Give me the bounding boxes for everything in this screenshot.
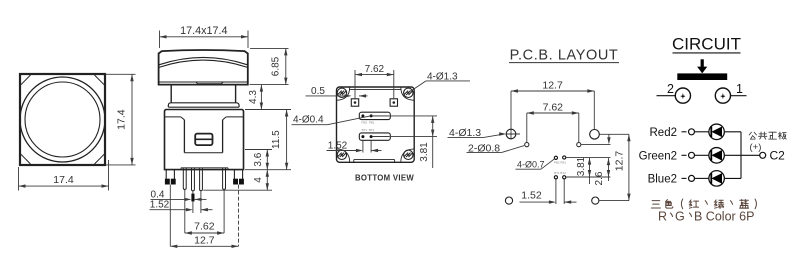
dimension 12.7 (pcb top) xyxy=(511,79,594,139)
LED D1 (red) xyxy=(709,124,725,140)
dimension 17.4 (front width) xyxy=(19,160,109,191)
bottom view: bottom notch xyxy=(354,160,395,163)
title P.C.B. LAYOUT xyxy=(509,48,619,64)
front view: button inner circle xyxy=(25,82,100,157)
side view: pin 4 xyxy=(223,168,226,190)
note R G B Color 6P xyxy=(658,209,754,223)
pcb hole &#216;0.8 left xyxy=(525,143,529,147)
svg-text:17.4: 17.4 xyxy=(116,109,128,130)
svg-text:4-Ø0.4: 4-Ø0.4 xyxy=(293,115,324,126)
dimension 7.62 xyxy=(185,232,224,234)
LED D2 (green) xyxy=(709,148,725,164)
front view: corner chamfer lines xyxy=(21,75,104,164)
svg-text:BT1 BT2: BT1 BT2 xyxy=(362,128,375,132)
side view: cap bottom tab xyxy=(196,82,223,84)
side view: button cap outline xyxy=(159,50,248,85)
pcb hole top-right &#216;1.3 xyxy=(590,130,629,140)
svg-text:3.81: 3.81 xyxy=(576,156,587,176)
bottom view: corner screw boss top-right xyxy=(404,88,413,97)
side view: cap dome arc inner xyxy=(159,60,248,67)
pcb hole &#216;0.8 right xyxy=(577,143,611,147)
svg-text:2.6: 2.6 xyxy=(594,171,605,185)
svg-text:4: 4 xyxy=(253,177,264,183)
svg-text:C2: C2 xyxy=(770,148,786,162)
wire Red2 to LED xyxy=(695,131,709,133)
bottom view: left peg hole square xyxy=(351,99,358,106)
title CIRCUIT xyxy=(672,35,741,54)
svg-text:3.81: 3.81 xyxy=(419,142,430,162)
svg-text:17.4x17.4: 17.4x17.4 xyxy=(180,25,227,37)
svg-text:6.85: 6.85 xyxy=(270,56,281,76)
dimension 0.5 (bottom view) xyxy=(306,86,368,98)
label 4-&#216;1.3 (pcb) xyxy=(448,127,507,139)
svg-text:R: R xyxy=(658,209,667,223)
svg-text:PB2 PB1: PB2 PB1 xyxy=(361,120,374,124)
pcb hole bottom-left &#216;1.3 xyxy=(505,197,512,204)
side view: pin 3 xyxy=(200,168,203,191)
bottom view: corner fillet arcs xyxy=(337,87,415,162)
front view: button outer circle xyxy=(20,77,105,162)
extension line: pin3 center xyxy=(200,191,202,213)
svg-text:BOTTOM VIEW: BOTTOM VIEW xyxy=(355,173,414,182)
label 4-&#216;0.4 (slot pins) xyxy=(292,115,372,126)
label 2-&#216;0.8 (pcb) xyxy=(467,142,525,154)
svg-text:12.7: 12.7 xyxy=(542,79,563,91)
side view: body outline xyxy=(165,110,244,170)
svg-text:4.3: 4.3 xyxy=(248,90,259,104)
side view: neck right edge xyxy=(235,85,237,103)
bottom view: inner top edge line xyxy=(350,89,402,91)
svg-text:G: G xyxy=(675,209,685,223)
side view: right mounting peg with crimp xyxy=(233,170,244,185)
side view: body bottom step xyxy=(181,168,228,170)
common anode bus wire xyxy=(740,132,742,179)
side view: pin 1 xyxy=(183,168,186,190)
side view: cap bottom rim line xyxy=(159,81,248,83)
bottom view: right peg hole square xyxy=(390,99,397,106)
side view: center latch xyxy=(195,134,212,146)
switch contact terminal 1 xyxy=(715,82,746,103)
chinese note: three colors (red green blue) xyxy=(651,199,756,209)
LED D3 (blue) xyxy=(709,171,725,187)
extension line: right peg center (dashed) xyxy=(238,185,240,247)
svg-text:1.52: 1.52 xyxy=(521,190,542,202)
svg-text:B Color 6P: B Color 6P xyxy=(694,209,754,223)
front view: button cap outer square xyxy=(20,74,105,165)
svg-text:7.62: 7.62 xyxy=(194,221,215,233)
dimension 1.52 (pcb) xyxy=(520,179,577,204)
wire Green2 to LED xyxy=(695,154,709,156)
svg-text:CIRCUIT: CIRCUIT xyxy=(672,35,741,54)
pcb hole bottom-right &#216;1.3 xyxy=(592,197,629,204)
wire bus to terminal C2 xyxy=(741,154,760,156)
svg-text:7.62: 7.62 xyxy=(365,64,385,75)
bottom view: housing outline xyxy=(337,87,415,162)
label 4-&#216;0.7 (pcb) xyxy=(516,159,555,170)
svg-text:12.7: 12.7 xyxy=(613,151,625,172)
dimension 17.4x17.4 (cap size) xyxy=(160,25,249,48)
extension line: left peg center xyxy=(169,185,171,247)
dimension 11.5 (body height) xyxy=(245,110,291,170)
pcb hole top-left &#216;1.3 xyxy=(506,129,520,139)
dimension 7.62 (pcb) xyxy=(527,101,579,142)
dimension 12.7 xyxy=(170,245,238,247)
svg-text:1.52: 1.52 xyxy=(150,199,170,210)
bottom view: corner screw boss bottom-right xyxy=(404,150,413,159)
svg-text:1: 1 xyxy=(736,82,743,96)
dimension 3.81 (bottom view) xyxy=(391,116,437,168)
svg-text:(+): (+) xyxy=(750,142,762,153)
wire LED D3 (blue) to common bus xyxy=(724,177,741,179)
pcb tiny holes &#216;0.7 (4x) xyxy=(554,156,567,179)
side view: collar xyxy=(168,103,239,107)
dimension 1.52 (pin pitch) xyxy=(150,199,213,211)
terminal Green2 xyxy=(639,150,695,162)
side view: pin 2 xyxy=(192,168,195,191)
small tick dimension near top-right hole xyxy=(607,134,610,144)
svg-text:0.5: 0.5 xyxy=(311,86,325,97)
side view: left mounting peg with crimp xyxy=(165,170,176,185)
wire Blue2 to LED xyxy=(695,177,709,179)
dimension 7.62 (bottom view) xyxy=(355,64,394,100)
dimension 12.7 (pcb right) xyxy=(613,134,630,200)
svg-text:PB2 PB1: PB2 PB1 xyxy=(554,161,567,165)
terminal Red2 xyxy=(650,127,695,139)
switch contact terminal 2 xyxy=(657,82,691,103)
switch actuator arrow xyxy=(697,59,707,73)
svg-text:Red2: Red2 xyxy=(650,127,678,139)
svg-text:11.5: 11.5 xyxy=(271,130,282,149)
bottom view: slot 2 with pins xyxy=(359,133,390,140)
dimension 0.4 (pin thickness) xyxy=(151,189,207,201)
svg-text:3.6: 3.6 xyxy=(253,152,264,166)
bottom view: slot 1 with pins xyxy=(359,112,390,119)
extension line: pin2 center xyxy=(192,191,194,213)
svg-text:2: 2 xyxy=(667,82,674,96)
dimension 6.85 (cap height) xyxy=(250,48,289,84)
bottom view: corner screw boss bottom-left xyxy=(337,150,346,159)
bottom view: corner screw boss top-left xyxy=(337,88,346,97)
label 4-&#216;1.3 (bottom view corner holes) xyxy=(411,71,471,91)
chinese note: common anode (gong gong zheng ji) xyxy=(749,132,786,139)
side view: body inner lip and recess xyxy=(165,117,244,153)
dimension 17.4 (front height) xyxy=(106,74,136,165)
svg-text:4-Ø0.7: 4-Ø0.7 xyxy=(517,159,545,169)
svg-text:Blue2: Blue2 xyxy=(648,173,677,185)
dimension 2.6 (pcb) xyxy=(594,158,610,185)
dimension 4 (pin length) xyxy=(203,170,272,191)
dimension 3.6 xyxy=(245,150,272,170)
dimension 3.81 (pcb) xyxy=(566,156,611,184)
extension line: pin1 center xyxy=(184,189,186,233)
svg-text:12.7: 12.7 xyxy=(194,234,215,246)
svg-text:17.4: 17.4 xyxy=(53,174,74,186)
svg-text:BT1 BT2: BT1 BT2 xyxy=(554,171,566,175)
dimension 4.3 (neck height) xyxy=(248,85,263,110)
svg-text:Green2: Green2 xyxy=(639,150,677,162)
switch bar xyxy=(677,73,727,80)
extension line: pin4 center xyxy=(223,189,225,233)
side view: neck left edge xyxy=(170,85,172,103)
wire LED D1 (red) to common bus xyxy=(724,131,741,133)
terminal Blue2 xyxy=(648,173,695,185)
svg-text:1.52: 1.52 xyxy=(328,141,348,152)
side view: cap dome arc outer xyxy=(159,57,248,64)
svg-text:7.62: 7.62 xyxy=(543,101,564,113)
svg-text:P.C.B. LAYOUT: P.C.B. LAYOUT xyxy=(510,48,619,64)
terminal C2 xyxy=(760,148,785,162)
wire LED D2 (green) to common bus xyxy=(724,154,741,156)
dimension 1.52 (bottom view) xyxy=(327,140,382,152)
